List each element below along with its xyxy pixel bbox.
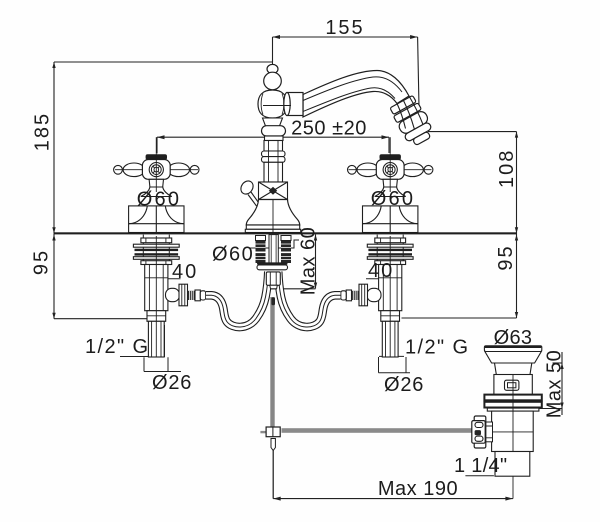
rod guide block [266, 272, 280, 285]
svg-text:Max 190: Max 190 [378, 478, 458, 500]
tick 40 right [366, 278, 399, 280]
handle hub circles [149, 163, 163, 177]
dimension 95 right arrows [515, 235, 518, 319]
handle rosette [129, 206, 184, 233]
gray horizontal linkage rod [282, 428, 474, 433]
drain ring 3 [487, 408, 539, 411]
column X medallion box [259, 182, 288, 200]
dimension 155 arrows [273, 35, 418, 39]
valve dark band 1 [135, 249, 179, 251]
dimension 250 ±20 arrows [157, 135, 389, 139]
right handle and valve (mirrored) [278, 137, 433, 357]
spout base plinth [246, 225, 299, 229]
center threaded stud right [281, 236, 291, 264]
handle centerline [155, 154, 157, 192]
svg-text:Ø60: Ø60 [137, 189, 181, 211]
hose [206, 272, 268, 328]
leader 1 1/4 [465, 475, 494, 477]
drain body [494, 375, 532, 395]
column ring bulge 2 [262, 157, 286, 163]
spout column ball [264, 72, 282, 90]
svg-text:40: 40 [172, 261, 198, 283]
svg-text:1/2" G: 1/2" G [85, 336, 149, 358]
svg-text:155: 155 [325, 17, 364, 39]
valve nut 2 [141, 261, 172, 265]
valve centerline [155, 236, 157, 357]
spout column finial knob [267, 64, 278, 73]
thin line from coupler to Max190 [272, 451, 274, 499]
svg-text:Ø60: Ø60 [371, 188, 415, 210]
valve tail [148, 321, 164, 357]
spout axis line [263, 105, 291, 107]
drain flange top [484, 346, 541, 352]
handle cap [146, 154, 167, 159]
drain ring 2 [484, 402, 541, 408]
column ring bulge 1 [262, 151, 286, 157]
handle extension line [155, 137, 157, 154]
gray pop-up vertical rod [270, 297, 274, 427]
valve elbow thread [188, 291, 196, 300]
valve hose fitting [195, 290, 200, 301]
handle arm tip ball left [114, 165, 123, 174]
svg-text:1 1/4": 1 1/4" [454, 455, 507, 477]
pop-up lever ball [238, 179, 259, 206]
dimension 95 left arrows [52, 235, 55, 319]
dimension 95 right line [402, 233, 517, 318]
countertop deck line [54, 232, 517, 234]
coupler pin [271, 439, 275, 451]
valve dark band 2 [135, 253, 179, 255]
handle arm lobe right [168, 163, 190, 177]
wing nut slot bottom [475, 436, 483, 441]
svg-text:Max 50: Max 50 [544, 350, 566, 419]
dimension 95 left line [54, 233, 149, 318]
leader 1/2 G right [379, 355, 404, 357]
dimension 108 line [428, 132, 517, 234]
spout body bulge [258, 90, 287, 118]
handle neck [149, 179, 163, 187]
dimension 108 arrows [515, 132, 518, 234]
wing nut slot top [475, 422, 483, 427]
valve side lines [143, 235, 169, 265]
svg-text:1/2" G: 1/2" G [405, 337, 469, 359]
drain flange body [485, 352, 541, 364]
drain overflow hole [505, 380, 519, 390]
svg-text:40: 40 [368, 260, 394, 282]
handle hub [142, 160, 170, 180]
dimension 185 line [54, 62, 273, 233]
svg-text:Max 60: Max 60 [298, 227, 320, 296]
svg-text:Ø63: Ø63 [494, 327, 533, 349]
spout tube [303, 71, 409, 118]
drain centerline [512, 347, 514, 499]
valve washer 1 [133, 244, 179, 247]
dimension 155 line [273, 37, 420, 107]
extension lines Ø26 left [144, 357, 181, 371]
drain neck [495, 363, 532, 375]
svg-text:95: 95 [495, 244, 517, 270]
rod dark tip [271, 297, 275, 305]
dimension 250 ±20 line [157, 137, 389, 153]
dimension Max 50 [536, 352, 563, 415]
spout arm collar [284, 93, 303, 116]
dimension Max 190 [273, 451, 513, 499]
center rod housing [269, 235, 278, 263]
clevis connector sleeve [485, 422, 492, 442]
drain center line lower [512, 375, 514, 452]
center threaded stud left [256, 236, 266, 264]
svg-text:95: 95 [31, 249, 53, 275]
valve nut 1 [141, 238, 172, 243]
aerator collar bands [389, 94, 430, 135]
wing nut inner [472, 421, 485, 444]
svg-text:108: 108 [496, 149, 518, 188]
spout bell base [246, 200, 299, 226]
aerator end cap [404, 122, 436, 149]
svg-text:250 ±20: 250 ±20 [291, 118, 367, 140]
spout wall lines through aerator [397, 96, 423, 132]
column bead ring [262, 126, 286, 136]
rod coupler [266, 427, 280, 437]
valve elbow hex [179, 284, 188, 306]
svg-text:Ø60: Ø60 [212, 244, 254, 266]
valve pipe [145, 265, 168, 311]
handle arm tip ball right [190, 165, 199, 174]
tick 40 left [148, 278, 181, 280]
dimension Max 60 arrows [314, 235, 317, 289]
column straight 2 [264, 162, 283, 182]
handle axis line [115, 169, 198, 171]
wing nut dark center [475, 430, 481, 435]
column straight 1 [264, 141, 283, 152]
leader Ø60 center [250, 240, 299, 248]
spout column centerline [272, 37, 274, 232]
svg-text:Ø26: Ø26 [384, 374, 424, 396]
drain ring 1 [484, 395, 541, 401]
valve washer 2 [133, 257, 179, 260]
rod guide taper [270, 285, 278, 289]
handle arm lobe left [123, 163, 145, 177]
extension lines Ø26 right [379, 357, 411, 373]
leader 1/2 G left [120, 325, 165, 357]
drain lower body [492, 411, 534, 451]
rod coupler left tab [260, 431, 266, 433]
svg-text:Ø26: Ø26 [152, 372, 192, 394]
dimension Max 60 line [271, 235, 316, 289]
valve box [147, 311, 166, 322]
wing nut outer [474, 416, 486, 448]
drain tail pipe [495, 452, 530, 477]
left handle and valve group [114, 137, 269, 357]
valve elbow dome [166, 288, 180, 301]
column ring [265, 136, 284, 141]
center tee [257, 262, 288, 265]
dimension 185 arrows [52, 62, 55, 233]
column neck [263, 118, 283, 126]
svg-text:185: 185 [32, 112, 54, 151]
